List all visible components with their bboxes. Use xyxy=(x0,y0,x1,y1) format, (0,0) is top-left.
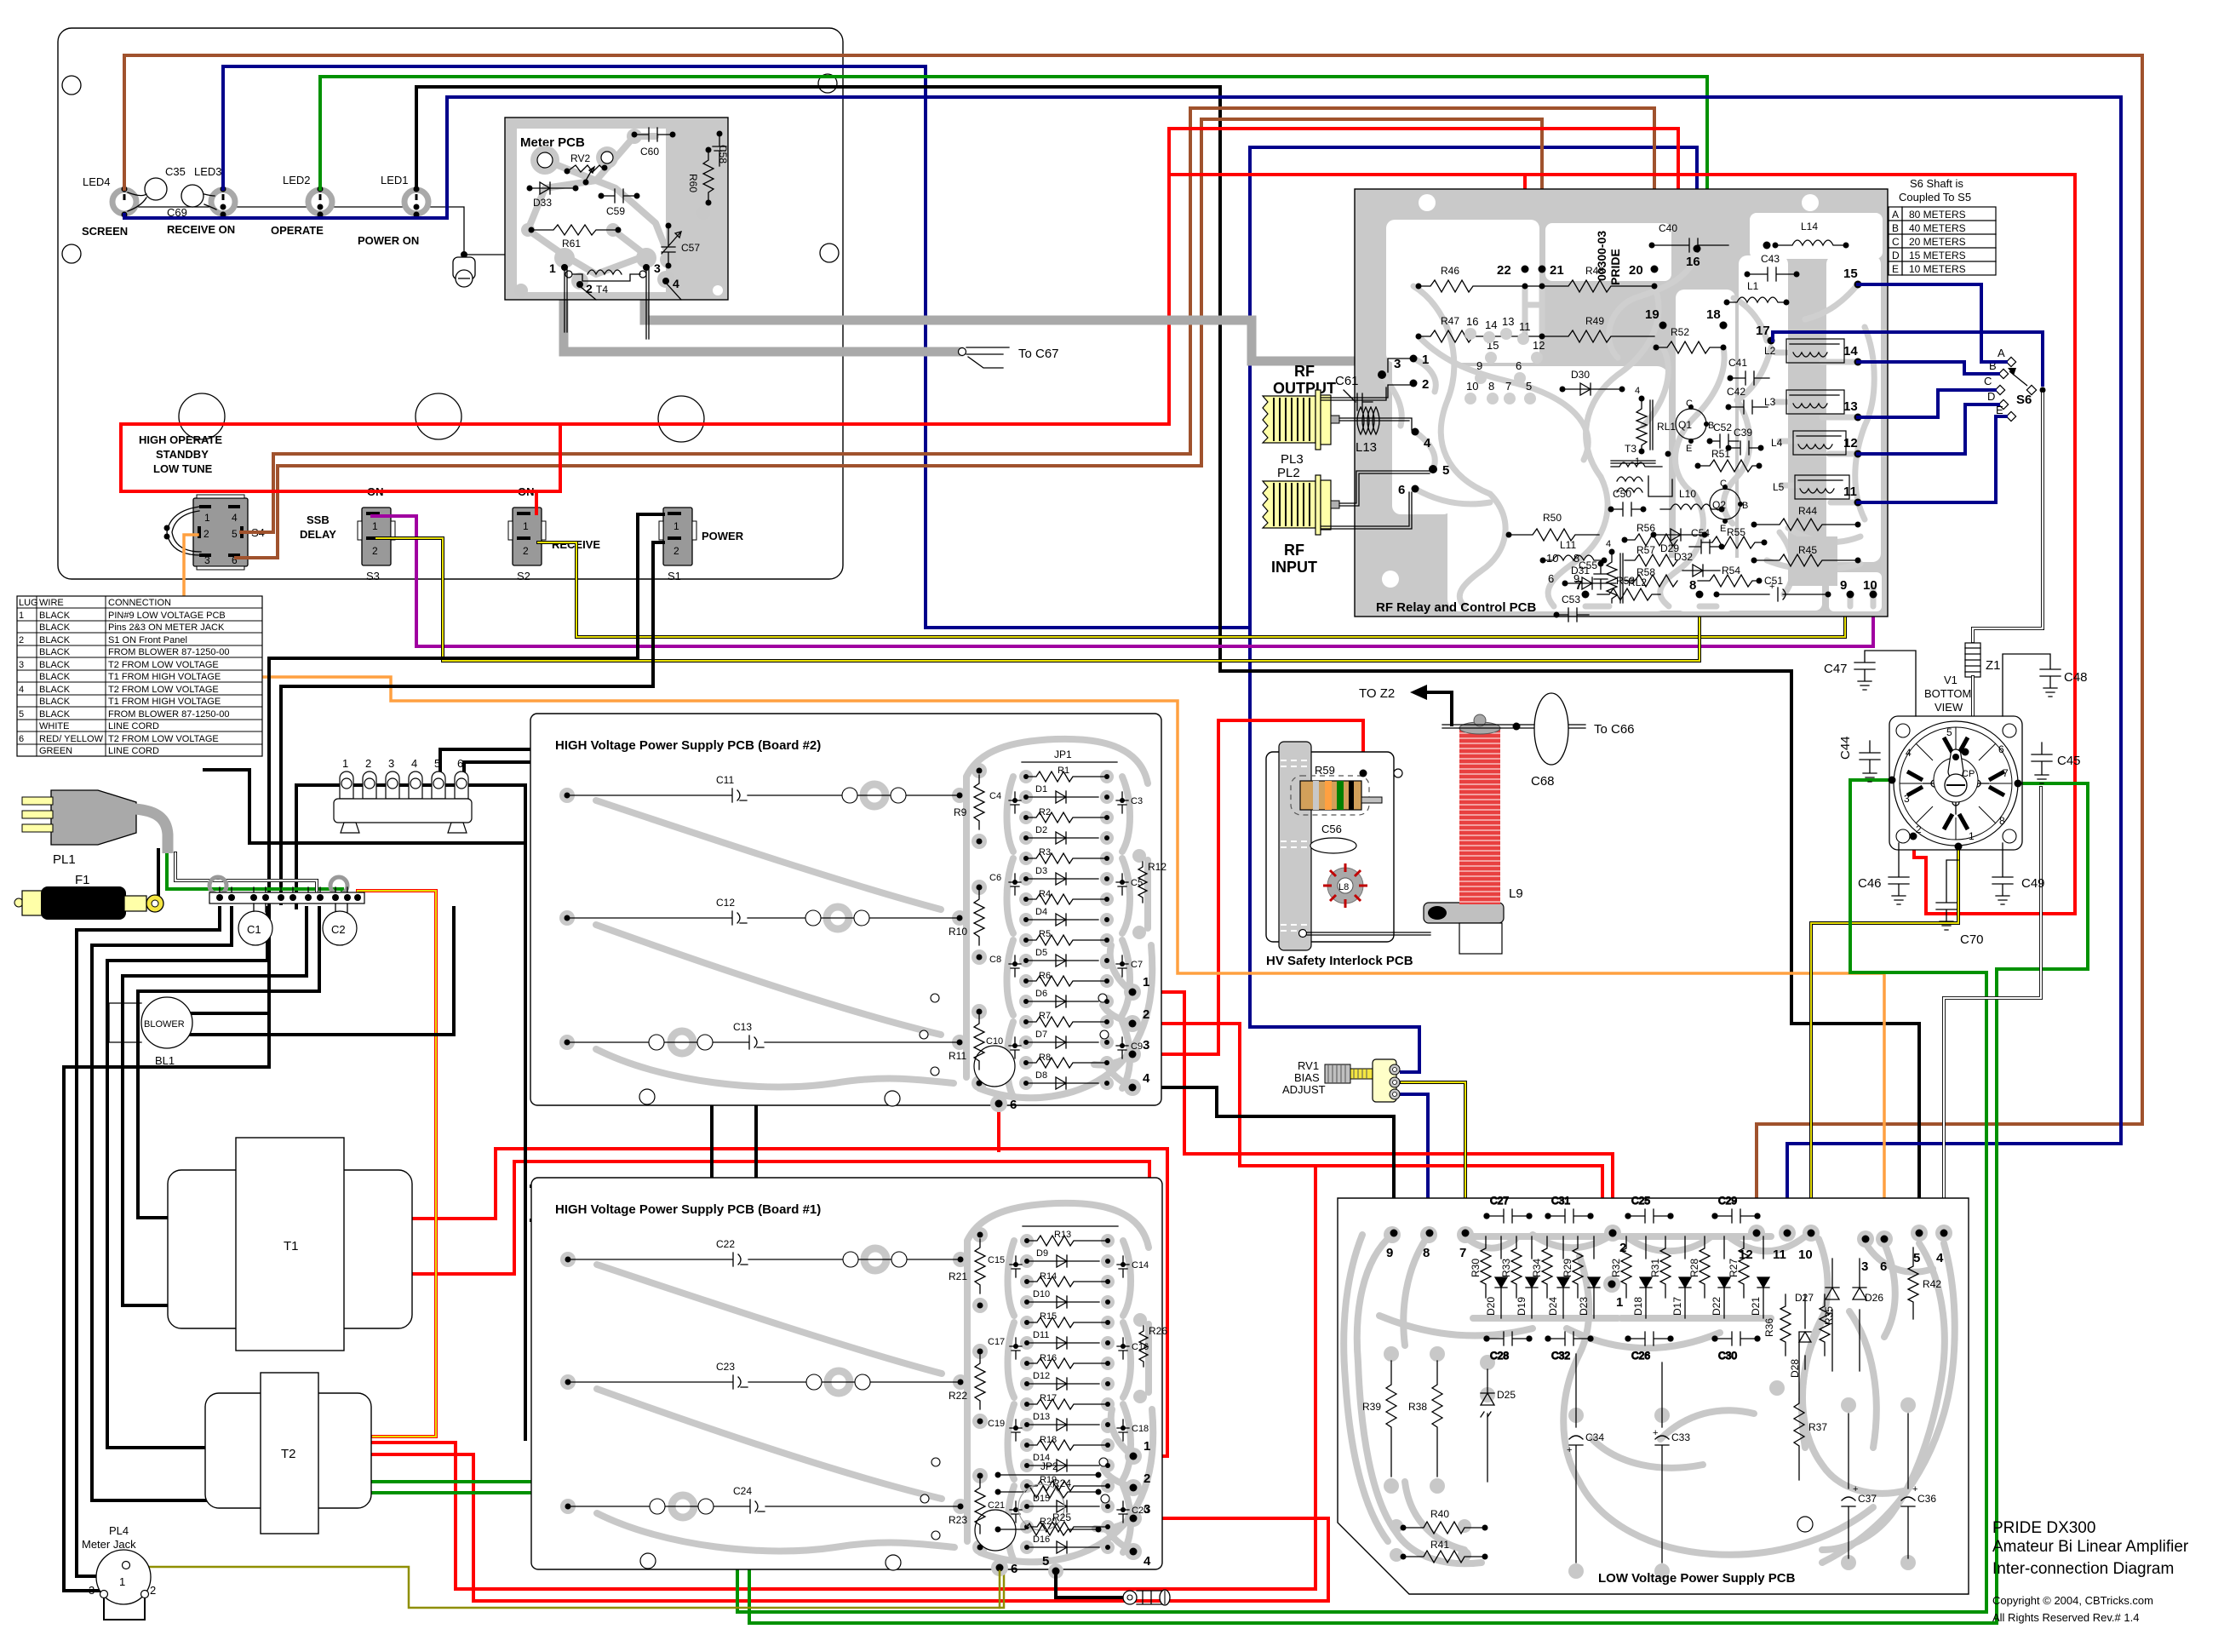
svg-text:GREEN: GREEN xyxy=(39,746,72,756)
svg-text:17: 17 xyxy=(1756,324,1770,338)
svg-text:R17: R17 xyxy=(1040,1393,1057,1403)
HIGH Voltage Power Supply PCB Board 2 xyxy=(530,714,1161,1112)
connector PL3 xyxy=(1263,390,1339,467)
svg-text:RV2: RV2 xyxy=(570,152,590,164)
wire red drop S2 pin1 xyxy=(535,491,538,513)
svg-text:RF: RF xyxy=(1284,542,1304,559)
svg-text:+: + xyxy=(1853,1484,1858,1494)
resistor R50 xyxy=(1506,512,1600,541)
wire navy RF13 to S6 C xyxy=(1858,390,1995,417)
svg-text:R52: R52 xyxy=(1671,326,1689,338)
svg-text:6: 6 xyxy=(1516,359,1522,372)
svg-text:R4: R4 xyxy=(1039,889,1051,899)
svg-text:C35: C35 xyxy=(165,165,186,178)
LED2 xyxy=(283,174,332,218)
svg-text:BLACK: BLACK xyxy=(39,697,71,707)
svg-text:D33: D33 xyxy=(533,197,552,209)
gray cable meter T4 pin1 to C67 xyxy=(564,300,959,352)
resistor R44 xyxy=(1751,505,1861,531)
switch S4 xyxy=(164,495,265,570)
capacitor C27 xyxy=(1484,1195,1532,1223)
diode D29 xyxy=(1651,529,1708,554)
capacitor C49 xyxy=(1992,843,2045,904)
svg-text:BLACK: BLACK xyxy=(39,635,71,645)
svg-text:16: 16 xyxy=(1466,315,1478,328)
svg-text:8: 8 xyxy=(1488,380,1494,393)
svg-text:L5: L5 xyxy=(1773,481,1785,493)
diode D30 xyxy=(1560,369,1625,395)
wire red T1 upper xyxy=(412,1149,1167,1456)
rf pin 4 xyxy=(1412,428,1419,436)
inductor L14 xyxy=(1773,221,1849,249)
svg-text:4: 4 xyxy=(1143,1071,1150,1086)
svg-text:V1: V1 xyxy=(1944,674,1957,686)
connector PL2 xyxy=(1263,466,1339,535)
interlock bottom contact xyxy=(1299,930,1307,938)
svg-text:C32: C32 xyxy=(1551,1350,1570,1362)
svg-text:Inter-connection Diagram: Inter-connection Diagram xyxy=(1992,1560,2174,1578)
meter jack PL4 xyxy=(82,1524,156,1620)
svg-text:D12: D12 xyxy=(1033,1371,1050,1381)
wire thin PL2 shell to pin6 xyxy=(1321,492,1412,529)
svg-text:C6: C6 xyxy=(989,873,1001,883)
svg-text:FROM BLOWER 87-1250-00: FROM BLOWER 87-1250-00 xyxy=(108,709,229,720)
rf pin 15 xyxy=(1854,281,1862,289)
svg-text:L10: L10 xyxy=(1679,488,1696,500)
svg-text:FROM BLOWER 87-1250-00: FROM BLOWER 87-1250-00 xyxy=(108,647,229,657)
svg-text:Coupled To S5: Coupled To S5 xyxy=(1899,191,1971,204)
svg-text:1: 1 xyxy=(1616,1295,1623,1310)
svg-text:C37: C37 xyxy=(1858,1493,1877,1505)
svg-text:BOTTOM: BOTTOM xyxy=(1924,687,1971,700)
rf pin 16 xyxy=(1694,245,1701,253)
meter pcb pin 3 xyxy=(643,264,650,271)
svg-text:L2: L2 xyxy=(1764,345,1776,357)
wire black loom lug row2 xyxy=(204,770,525,843)
meter pcb traces xyxy=(528,136,668,274)
capacitor C68 xyxy=(1531,693,1568,789)
svg-text:3: 3 xyxy=(388,757,394,770)
svg-text:20 METERS: 20 METERS xyxy=(1909,236,1966,248)
capacitor C53 xyxy=(1554,594,1590,622)
potentiometer RV2 xyxy=(565,152,608,186)
svg-text:Q2: Q2 xyxy=(1712,499,1726,511)
svg-text:16: 16 xyxy=(1686,255,1700,269)
svg-text:LED3: LED3 xyxy=(194,165,222,178)
svg-text:1: 1 xyxy=(1143,975,1149,989)
lug table xyxy=(17,596,262,756)
svg-text:9: 9 xyxy=(1840,578,1847,593)
svg-text:11: 11 xyxy=(1843,485,1857,499)
resistor R41 xyxy=(1401,1539,1488,1563)
svg-text:R26: R26 xyxy=(1149,1325,1167,1337)
rf pin 2 xyxy=(1410,380,1418,387)
inductor L3 xyxy=(1764,390,1844,414)
svg-text:C68: C68 xyxy=(1531,774,1555,789)
svg-text:L14: L14 xyxy=(1801,221,1818,232)
resistor R39 xyxy=(1362,1361,1396,1477)
svg-text:R51: R51 xyxy=(1711,448,1730,460)
svg-text:C40: C40 xyxy=(1659,222,1677,234)
svg-text:1: 1 xyxy=(1969,830,1975,842)
wire red net2 top xyxy=(1169,175,2075,914)
svg-text:+: + xyxy=(1769,582,1774,592)
wire navy LED3 run xyxy=(223,66,1250,628)
resistor labels row xyxy=(1470,1259,1740,1277)
svg-text:14: 14 xyxy=(1485,318,1497,331)
svg-text:C27: C27 xyxy=(1490,1195,1509,1207)
svg-text:R29: R29 xyxy=(1562,1259,1573,1277)
capacitor C30 xyxy=(1712,1332,1760,1362)
blower BL1 xyxy=(109,997,192,1067)
svg-text:6: 6 xyxy=(457,757,463,770)
svg-text:C11: C11 xyxy=(716,774,734,786)
svg-text:11: 11 xyxy=(1519,320,1531,333)
resistor R54 xyxy=(1698,565,1763,587)
meter hole xyxy=(416,393,461,439)
inductor L13 xyxy=(1356,407,1379,455)
svg-text:4: 4 xyxy=(232,512,238,524)
svg-text:R47: R47 xyxy=(1441,315,1459,327)
wire red S4 to S2 xyxy=(121,424,560,491)
svg-text:C7: C7 xyxy=(1131,960,1143,970)
resistor R24 xyxy=(995,1477,1102,1498)
svg-text:6: 6 xyxy=(19,734,24,744)
resistor R25 xyxy=(995,1484,1102,1535)
svg-text:R40: R40 xyxy=(1430,1508,1449,1520)
svg-text:R48: R48 xyxy=(1585,265,1604,277)
svg-text:R58: R58 xyxy=(1636,566,1655,578)
svg-text:T1 FROM HIGH VOLTAGE: T1 FROM HIGH VOLTAGE xyxy=(108,672,221,682)
svg-text:R60: R60 xyxy=(687,174,699,192)
capacitor C55 xyxy=(1579,559,1608,589)
svg-text:R30: R30 xyxy=(1470,1259,1482,1277)
capacitor C32 xyxy=(1545,1332,1593,1362)
capacitor C31 xyxy=(1545,1195,1593,1223)
LED1 xyxy=(381,174,428,218)
svg-text:3: 3 xyxy=(1394,357,1401,371)
svg-text:SSB: SSB xyxy=(307,513,330,526)
svg-text:C52: C52 xyxy=(1713,422,1732,433)
svg-text:8: 8 xyxy=(1689,578,1696,593)
svg-text:INPUT: INPUT xyxy=(1271,559,1317,576)
svg-text:TO Z2: TO Z2 xyxy=(1359,686,1395,701)
svg-text:C8: C8 xyxy=(989,955,1001,965)
svg-text:3: 3 xyxy=(1144,1502,1150,1517)
svg-text:R12: R12 xyxy=(1148,861,1166,873)
wire red-yellow T2 xyxy=(358,891,436,1437)
svg-text:D15: D15 xyxy=(1033,1494,1050,1504)
svg-text:LED4: LED4 xyxy=(83,175,111,188)
svg-text:C19: C19 xyxy=(988,1419,1005,1429)
svg-text:5: 5 xyxy=(1913,1251,1920,1265)
svg-text:LINE CORD: LINE CORD xyxy=(108,721,159,731)
wire black blower lead1 xyxy=(153,1012,269,1015)
rf pin 5 xyxy=(1429,465,1437,473)
capacitor C36 xyxy=(1901,1414,1936,1558)
rf pin 11 xyxy=(1854,499,1862,507)
svg-text:C: C xyxy=(1984,375,1992,387)
potentiometer RV1 xyxy=(1282,1059,1400,1102)
svg-text:2: 2 xyxy=(372,545,378,557)
svg-text:D: D xyxy=(1892,250,1900,261)
diode D32 xyxy=(1674,551,1720,576)
svg-text:LUG: LUG xyxy=(19,598,38,608)
svg-text:C13: C13 xyxy=(733,1021,752,1033)
wire yellow S2 to RF pin9 xyxy=(538,542,1845,637)
resistor R46 xyxy=(1416,265,1545,292)
svg-text:R34: R34 xyxy=(1531,1259,1543,1277)
LOW Voltage Power Supply PCB board xyxy=(1338,1198,1969,1594)
svg-text:R1: R1 xyxy=(1058,766,1069,776)
svg-text:A: A xyxy=(1998,347,2005,359)
rf pin 19 xyxy=(1659,322,1667,330)
svg-text:POWER: POWER xyxy=(702,530,744,542)
svg-text:C48: C48 xyxy=(2064,670,2088,685)
svg-text:C2: C2 xyxy=(331,923,346,936)
svg-text:T1 FROM HIGH VOLTAGE: T1 FROM HIGH VOLTAGE xyxy=(108,697,221,707)
svg-text:2: 2 xyxy=(523,545,529,557)
capacitor C60 xyxy=(632,128,676,158)
wire black loom B xyxy=(92,908,232,1500)
svg-text:E: E xyxy=(1892,263,1899,275)
wire green line cord xyxy=(167,853,342,896)
svg-text:R44: R44 xyxy=(1798,505,1817,517)
wire red b2 pin2 to LV xyxy=(1132,1024,1602,1255)
svg-text:LINE CORD: LINE CORD xyxy=(108,746,159,756)
svg-text:VIEW: VIEW xyxy=(1935,701,1963,714)
svg-text:JP1: JP1 xyxy=(1054,749,1072,760)
svg-text:R45: R45 xyxy=(1798,544,1817,556)
svg-text:C23: C23 xyxy=(716,1361,735,1373)
mounting hole xyxy=(818,74,837,93)
svg-text:D4: D4 xyxy=(1035,907,1047,917)
svg-text:D16: D16 xyxy=(1033,1534,1050,1545)
wire black lug strip to T1 right 2 xyxy=(440,749,756,1220)
lv pads xyxy=(1384,1225,1952,1579)
svg-text:C14: C14 xyxy=(1132,1260,1149,1271)
svg-text:R9: R9 xyxy=(954,806,967,818)
svg-text:+: + xyxy=(1567,1445,1572,1455)
svg-text:D9: D9 xyxy=(1036,1248,1048,1259)
svg-text:C70: C70 xyxy=(1960,932,1984,947)
svg-text:D30: D30 xyxy=(1571,369,1590,381)
terminal strip 6 lug xyxy=(334,757,472,833)
pad grid RL2 xyxy=(1546,552,1579,585)
svg-text:19: 19 xyxy=(1645,307,1659,322)
svg-text:3: 3 xyxy=(204,554,210,566)
svg-text:4: 4 xyxy=(673,277,679,290)
wire olive board1 pin6 xyxy=(999,1571,1001,1608)
svg-text:R35: R35 xyxy=(1823,1306,1835,1325)
transistor Q1 xyxy=(1676,399,1714,454)
wire thin PL2 to pin5 xyxy=(1339,471,1430,506)
wire red b2 pin3 to R59 xyxy=(1132,720,1363,1054)
svg-text:6: 6 xyxy=(1398,483,1405,497)
rf pin 14 xyxy=(1854,359,1862,366)
svg-text:L11: L11 xyxy=(1560,539,1576,551)
svg-text:10 METERS: 10 METERS xyxy=(1909,263,1966,275)
svg-text:R14: R14 xyxy=(1040,1271,1057,1282)
capacitor C44 xyxy=(1838,736,1880,782)
svg-text:D27: D27 xyxy=(1795,1292,1814,1304)
capacitor C47 xyxy=(1824,651,1916,716)
wire orange S4 to LV pin6 xyxy=(184,535,1884,1231)
svg-text:C53: C53 xyxy=(1562,594,1580,605)
svg-text:PL2: PL2 xyxy=(1277,466,1300,480)
svg-text:R2: R2 xyxy=(1039,807,1051,817)
capacitor C34 xyxy=(1567,1354,1604,1563)
svg-text:1: 1 xyxy=(1144,1439,1150,1454)
transistor Q2 xyxy=(1710,479,1748,534)
svg-text:C22: C22 xyxy=(716,1238,735,1250)
svg-text:BL1: BL1 xyxy=(155,1054,175,1067)
svg-text:C30: C30 xyxy=(1718,1350,1737,1362)
svg-text:BLOWER: BLOWER xyxy=(144,1019,185,1030)
inductor Z1 xyxy=(1965,643,2001,677)
svg-text:10: 10 xyxy=(1863,578,1877,593)
inductor L1 xyxy=(1724,280,1790,306)
svg-text:D3: D3 xyxy=(1035,866,1047,876)
svg-text:R55: R55 xyxy=(1727,526,1745,538)
svg-text:T2: T2 xyxy=(281,1447,296,1461)
svg-text:A: A xyxy=(1892,209,1899,221)
wire black loom C xyxy=(107,908,267,1448)
rf pin 9 xyxy=(1847,591,1854,599)
svg-text:BLACK: BLACK xyxy=(39,660,71,670)
resistor R38 xyxy=(1408,1361,1442,1477)
svg-text:D19: D19 xyxy=(1516,1297,1528,1316)
svg-text:C17: C17 xyxy=(988,1337,1005,1347)
svg-text:C5: C5 xyxy=(1131,878,1143,888)
capacitor C61 xyxy=(1335,374,1373,410)
svg-text:Copyright © 2004, CBTricks.com: Copyright © 2004, CBTricks.com xyxy=(1992,1594,2153,1607)
svg-text:R7: R7 xyxy=(1039,1011,1051,1021)
rf pin 10 xyxy=(1870,591,1877,599)
svg-text:R42: R42 xyxy=(1923,1278,1941,1290)
svg-text:JP2: JP2 xyxy=(1040,1460,1058,1472)
svg-text:POWER ON: POWER ON xyxy=(358,234,419,247)
svg-text:5: 5 xyxy=(232,528,238,540)
svg-text:1: 1 xyxy=(204,512,210,524)
svg-text:R33: R33 xyxy=(1500,1259,1512,1277)
svg-text:SCREEN: SCREEN xyxy=(82,225,128,238)
wire thin PL3 to pin2 xyxy=(1321,385,1410,400)
svg-text:STANDBY: STANDBY xyxy=(156,448,209,461)
capacitor C70 xyxy=(1936,860,1984,947)
svg-text:R13: R13 xyxy=(1054,1230,1071,1240)
svg-text:OPERATE: OPERATE xyxy=(271,224,324,237)
wire black blower lead2 xyxy=(153,908,454,1035)
svg-text:1: 1 xyxy=(19,611,24,621)
capacitor C25 xyxy=(1625,1195,1673,1223)
svg-text:L1: L1 xyxy=(1747,280,1759,292)
svg-text:2: 2 xyxy=(203,528,209,540)
svg-text:1: 1 xyxy=(549,261,556,275)
svg-text:R49: R49 xyxy=(1585,315,1604,327)
svg-text:R15: R15 xyxy=(1040,1311,1057,1322)
svg-text:RED/ YELLOW: RED/ YELLOW xyxy=(39,734,104,744)
svg-text:15 METERS: 15 METERS xyxy=(1909,250,1966,261)
wire yellow S3 xyxy=(376,538,1700,661)
rf pin 21 xyxy=(1539,266,1546,273)
svg-text:6: 6 xyxy=(1880,1259,1887,1274)
capacitor C40 xyxy=(1649,222,1729,252)
capacitor C51 xyxy=(1714,575,1831,601)
svg-text:C45: C45 xyxy=(2057,754,2081,768)
svg-text:BLACK: BLACK xyxy=(39,622,71,633)
svg-text:6: 6 xyxy=(1548,572,1554,585)
capacitor C50 xyxy=(1608,488,1647,516)
meter hole xyxy=(179,393,225,439)
svg-text:R28: R28 xyxy=(1688,1259,1700,1277)
meter pcb pin 1 xyxy=(561,264,568,271)
svg-text:WHITE: WHITE xyxy=(39,721,69,731)
svg-text:C49: C49 xyxy=(2021,876,2045,891)
svg-text:PL4: PL4 xyxy=(109,1524,129,1537)
wire purple S3 to RF pin10 xyxy=(372,516,1873,646)
svg-text:13: 13 xyxy=(1502,315,1514,328)
wire black TO Z2 xyxy=(1425,692,1452,725)
resistor R49 xyxy=(1542,315,1654,342)
wire navy RF17 to S6 pole xyxy=(1773,332,2043,385)
svg-text:9: 9 xyxy=(1573,572,1579,585)
capacitor C1 xyxy=(238,911,272,945)
svg-text:S3: S3 xyxy=(366,570,380,582)
svg-text:D25: D25 xyxy=(1497,1389,1516,1401)
fuse F1 xyxy=(14,873,163,920)
switch S3 xyxy=(358,485,395,582)
svg-text:+: + xyxy=(1653,1428,1658,1438)
svg-text:T2 FROM LOW VOLTAGE: T2 FROM LOW VOLTAGE xyxy=(108,734,219,744)
resistor R56 xyxy=(1622,522,1678,546)
svg-text:R18: R18 xyxy=(1040,1435,1057,1445)
power-on lamp xyxy=(453,251,524,294)
svg-text:R8: R8 xyxy=(1039,1053,1051,1063)
diode D31 xyxy=(1562,565,1617,589)
svg-text:C33: C33 xyxy=(1671,1431,1690,1443)
transformer T2 xyxy=(205,1373,371,1534)
svg-text:BIAS: BIAS xyxy=(1294,1071,1320,1084)
svg-text:R24: R24 xyxy=(1052,1477,1071,1489)
svg-text:C24: C24 xyxy=(733,1485,752,1497)
diode D26 xyxy=(1853,1259,1883,1371)
svg-text:R11: R11 xyxy=(949,1050,966,1062)
capacitor C48 xyxy=(2003,654,2088,716)
resistor R36 xyxy=(1763,1294,1791,1356)
svg-text:HV Safety Interlock PCB: HV Safety Interlock PCB xyxy=(1266,954,1413,968)
capacitor C28 xyxy=(1484,1332,1532,1362)
wire thin C68 line xyxy=(1442,725,1585,728)
capacitor C69 xyxy=(167,185,216,219)
capacitor C45 xyxy=(2032,743,2081,783)
svg-text:C18: C18 xyxy=(1132,1424,1149,1434)
switch S6 xyxy=(1984,347,2046,422)
svg-text:D18: D18 xyxy=(1632,1297,1644,1316)
wire white S6 pole to Z1 xyxy=(1973,393,2043,641)
wire black board1 pin5 to lug xyxy=(1056,1571,1122,1598)
svg-text:5: 5 xyxy=(1946,726,1952,738)
ring lug xyxy=(1123,1590,1170,1605)
svg-text:L4: L4 xyxy=(1771,437,1783,449)
wire navy RF11 to S6 E xyxy=(1858,416,2006,502)
diode D27 xyxy=(1795,1259,1839,1371)
svg-text:C4: C4 xyxy=(989,791,1001,801)
svg-text:D6: D6 xyxy=(1035,989,1047,999)
svg-text:4: 4 xyxy=(1144,1554,1151,1569)
wire green LED2 to RF pin18 xyxy=(320,77,1720,308)
wire black lug strip to T1 right xyxy=(464,762,712,1186)
